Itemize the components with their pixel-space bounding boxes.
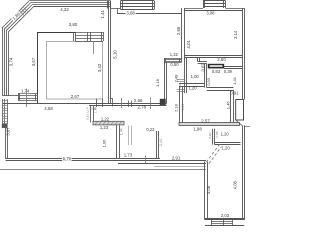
short wall with 0,22 label bbox=[156, 131, 158, 158]
svg-text:4,08: 4,08 bbox=[232, 180, 237, 189]
svg-text:1,14: 1,14 bbox=[85, 107, 89, 113]
svg-text:4,32: 4,32 bbox=[60, 7, 69, 12]
svg-text:4,01: 4,01 bbox=[186, 39, 191, 48]
kitchen top wall outer segments bbox=[185, 8, 204, 10]
top window wall of living room, 4 lines bbox=[29, 0, 110, 2]
window mullion double line bbox=[87, 32, 89, 41]
corridor top wall thick with fill bbox=[179, 123, 240, 126]
svg-text:2,78: 2,78 bbox=[138, 105, 147, 110]
small wall double line bbox=[212, 129, 214, 145]
svg-text:2,60: 2,60 bbox=[217, 57, 226, 62]
svg-text:1,20: 1,20 bbox=[222, 145, 231, 150]
toilet left wall bbox=[204, 64, 206, 88]
svg-text:2,65: 2,65 bbox=[176, 26, 181, 35]
svg-text:0,31: 0,31 bbox=[85, 114, 89, 120]
toilet bottom wall bbox=[207, 87, 234, 89]
svg-text:2,67: 2,67 bbox=[71, 94, 80, 99]
toilet top wall right of vent bbox=[224, 66, 242, 68]
svg-text:3,18: 3,18 bbox=[155, 78, 160, 87]
dimension label 1,86 on diagonal wall bbox=[11, 11, 21, 21]
svg-text:4,58: 4,58 bbox=[44, 106, 53, 111]
window block at bottom of left strip (hatched) bbox=[18, 93, 37, 95]
svg-text:1,73: 1,73 bbox=[124, 153, 133, 158]
thin inner line bbox=[154, 166, 206, 168]
svg-text:1,44: 1,44 bbox=[159, 139, 163, 146]
svg-text:3,67: 3,67 bbox=[31, 57, 36, 66]
dimension label 5,79 bbox=[62, 156, 72, 160]
pier step line bbox=[111, 8, 121, 10]
living room inner wall left line bbox=[37, 32, 39, 103]
svg-text:1,96: 1,96 bbox=[102, 139, 107, 148]
left wall window with hatch rungs bbox=[2, 99, 4, 124]
dividing wall between top-middle and top-right rooms bbox=[181, 8, 183, 59]
svg-text:0,55: 0,55 bbox=[215, 131, 219, 137]
dashed opening diagonals bbox=[206, 145, 220, 163]
svg-text:3,08: 3,08 bbox=[206, 11, 215, 16]
svg-text:2,91: 2,91 bbox=[172, 155, 181, 160]
svg-text:2,48: 2,48 bbox=[173, 74, 178, 83]
right outer wall double line bbox=[242, 8, 244, 100]
door swing diagonal bbox=[236, 120, 243, 126]
svg-text:3,08: 3,08 bbox=[206, 185, 211, 194]
balcony right wall bbox=[242, 126, 244, 220]
svg-text:3,80: 3,80 bbox=[69, 22, 78, 27]
dimension tick below window bbox=[93, 41, 95, 54]
inner grey rectangle (floor outline) bbox=[47, 42, 103, 100]
kitchen window bbox=[203, 0, 226, 2]
svg-text:1,88: 1,88 bbox=[193, 126, 202, 131]
bathroom top-right step wall bbox=[197, 57, 199, 61]
window in living room top inner wall (hatched block) bbox=[75, 32, 103, 34]
left outer window wall, 4 vertical lines upper segment bbox=[2, 28, 4, 96]
faint door jamb lines bbox=[128, 126, 130, 146]
svg-text:1,41: 1,41 bbox=[232, 76, 237, 85]
open balcony door leaf rectangle bbox=[236, 100, 244, 121]
door jamb marks in that wall bbox=[96, 99, 98, 108]
svg-text:0,50: 0,50 bbox=[170, 62, 179, 67]
svg-text:0,91: 0,91 bbox=[230, 91, 239, 96]
svg-text:1,22: 1,22 bbox=[101, 116, 110, 121]
svg-text:0,60: 0,60 bbox=[208, 132, 212, 138]
svg-text:3,68: 3,68 bbox=[126, 11, 135, 16]
svg-text:0,93: 0,93 bbox=[206, 77, 211, 86]
balcony left wall bbox=[204, 162, 206, 220]
svg-text:1,22: 1,22 bbox=[170, 52, 179, 57]
kitchen bottom wall bbox=[184, 55, 242, 57]
svg-text:1,20: 1,20 bbox=[188, 86, 197, 91]
svg-text:3,07: 3,07 bbox=[6, 127, 11, 136]
living room right wall double line bbox=[108, 1, 110, 103]
dimension label 3,68 bbox=[125, 11, 135, 16]
bathroom left wall bbox=[184, 57, 186, 93]
dark wall foot block bbox=[160, 99, 166, 105]
svg-text:1,41: 1,41 bbox=[100, 9, 105, 18]
window between middle room and hall bbox=[164, 58, 182, 60]
end cap of top window at wall pier bbox=[107, 1, 109, 9]
pier inner corner line bbox=[117, 8, 119, 13]
door jamb ticks left of wall bbox=[177, 79, 185, 81]
svg-text:1,44: 1,44 bbox=[120, 128, 124, 135]
svg-text:1,00: 1,00 bbox=[191, 74, 200, 79]
svg-text:0,39: 0,39 bbox=[224, 69, 233, 74]
svg-text:0,81: 0,81 bbox=[178, 82, 182, 88]
svg-text:2,57: 2,57 bbox=[201, 118, 210, 123]
storage closet left wall double line bbox=[90, 106, 92, 123]
left wall dark end cap bbox=[2, 124, 7, 128]
closet right wall going down bbox=[116, 126, 118, 159]
balcony window block bbox=[211, 221, 232, 223]
closet bottom wall bbox=[215, 142, 241, 144]
svg-text:0,91: 0,91 bbox=[181, 104, 185, 111]
wall from bathroom down to corridor bbox=[179, 86, 181, 122]
kitchen top wall inner line bbox=[185, 10, 243, 12]
hatch ticks on diagonal window bbox=[24, 7, 28, 11]
wall down from toilet to corridor wall bbox=[230, 90, 232, 122]
balcony bottom wall bbox=[205, 218, 244, 220]
svg-text:1,74: 1,74 bbox=[21, 89, 30, 94]
bottom wall of lower-left room bbox=[6, 158, 160, 160]
svg-text:0,87: 0,87 bbox=[200, 63, 205, 72]
left wall horizontal joint line bbox=[3, 95, 19, 97]
top wall inner line of middle room bbox=[117, 13, 182, 15]
svg-text:5,10: 5,10 bbox=[112, 50, 117, 59]
svg-text:1,20: 1,20 bbox=[221, 132, 230, 137]
svg-text:1,46: 1,46 bbox=[225, 101, 230, 110]
svg-text:3,74: 3,74 bbox=[9, 57, 14, 66]
corridor top wall lower line bbox=[89, 105, 167, 107]
building edge line full width bbox=[0, 169, 206, 171]
ventilation block dark bar bbox=[208, 64, 224, 68]
corridor top wall upper line bbox=[3, 103, 167, 105]
window of top middle room bbox=[121, 0, 155, 2]
svg-text:1,23: 1,23 bbox=[100, 125, 109, 130]
svg-text:0,22: 0,22 bbox=[146, 127, 155, 132]
svg-text:3,14: 3,14 bbox=[233, 30, 238, 39]
svg-text:2,66: 2,66 bbox=[134, 98, 143, 103]
bottom wall lower line right part bbox=[118, 163, 206, 165]
diagonal bay window wall (top-left), 4 parallel lines bbox=[2, 1, 29, 28]
living room inner wall top line bbox=[37, 32, 75, 34]
svg-text:2,18: 2,18 bbox=[173, 103, 178, 112]
svg-text:1,40: 1,40 bbox=[93, 107, 97, 113]
tick on bottom wall bbox=[145, 156, 147, 164]
svg-text:3,42: 3,42 bbox=[97, 63, 102, 72]
bathroom bottom wall bbox=[179, 83, 205, 85]
corner stub at living room bottom right bbox=[111, 98, 113, 100]
tick marks on wall bbox=[121, 98, 123, 108]
svg-text:0,83: 0,83 bbox=[212, 69, 221, 74]
dimension label 1,74 bbox=[20, 89, 30, 93]
hatched wall band of closet bbox=[93, 121, 124, 125]
kitchen-hall wall going down bbox=[164, 63, 166, 104]
svg-text:2,03: 2,03 bbox=[221, 213, 230, 218]
wall stub to right edge bbox=[244, 126, 250, 128]
tick through window bbox=[26, 89, 28, 108]
left wall lower plain segment bbox=[5, 128, 7, 159]
svg-text:5,79: 5,79 bbox=[63, 156, 72, 161]
